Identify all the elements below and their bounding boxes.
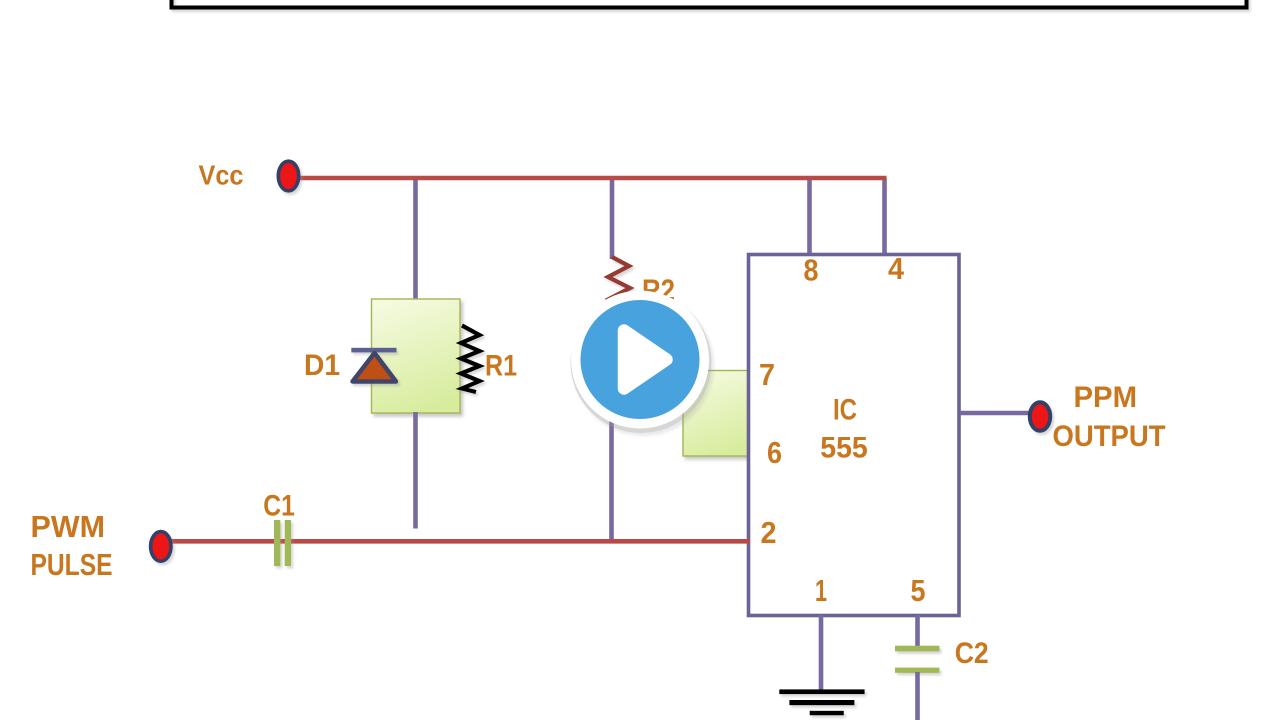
svg-text:7: 7 (759, 357, 775, 392)
wire Vcc rail to R2 (610, 178, 615, 259)
wire Vcc rail (295, 176, 887, 181)
wire Vcc rail to D1/R1 block (413, 178, 418, 300)
node Vcc terminal (160, 545, 162, 547)
slide frame (top box) (170, 0, 1249, 10)
node PPM output terminal (1030, 402, 1050, 430)
svg-text:4: 4 (888, 251, 905, 286)
svg-text:1: 1 (815, 573, 827, 608)
wire pin 1 to ground (819, 615, 824, 691)
wire output pin 3 (960, 411, 1030, 416)
wire Vcc rail to pin 4 (882, 178, 887, 255)
svg-text:2: 2 (761, 515, 777, 550)
D1/R1 block background (372, 299, 461, 413)
wire Vcc rail to pin 8 (807, 178, 812, 255)
svg-text:OUTPUT: OUTPUT (1053, 420, 1166, 453)
svg-text:5: 5 (911, 573, 926, 608)
diode D1 (351, 348, 396, 382)
op IC U1 555 body (749, 255, 960, 616)
svg-text:8: 8 (804, 253, 819, 288)
wire pin 5 to C2 (915, 615, 920, 647)
svg-text:6: 6 (767, 435, 782, 470)
ground (779, 689, 864, 715)
resistor R1 (461, 326, 480, 393)
capacitor C1 (274, 520, 291, 566)
wire R2 to PWM rail (609, 330, 614, 543)
control voltage block at pins 7/6 (683, 371, 749, 457)
play button overlay (571, 291, 712, 434)
svg-text:C1: C1 (263, 490, 295, 523)
capacitor C2 (895, 646, 939, 673)
svg-text:R1: R1 (485, 350, 517, 383)
wire D1/R1 block to PWM rail (413, 412, 418, 529)
svg-text:PULSE: PULSE (31, 547, 113, 582)
svg-text:Vcc: Vcc (199, 160, 244, 191)
node PWM input terminal (151, 532, 171, 562)
svg-text:C2: C2 (955, 637, 989, 670)
svg-text:PWM: PWM (31, 509, 106, 544)
wire C2 to bottom edge (915, 672, 920, 720)
svg-text:IC: IC (833, 394, 857, 427)
svg-text:D1: D1 (304, 349, 340, 382)
resistor R2 (608, 257, 630, 330)
wire PWM rail to pin 2 (170, 539, 750, 544)
svg-text:555: 555 (820, 432, 868, 465)
svg-text:PPM: PPM (1074, 381, 1138, 414)
